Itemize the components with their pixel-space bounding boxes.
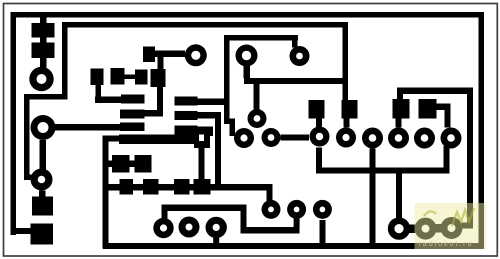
- svg-text:radiokot.ru: radiokot.ru: [419, 239, 474, 248]
